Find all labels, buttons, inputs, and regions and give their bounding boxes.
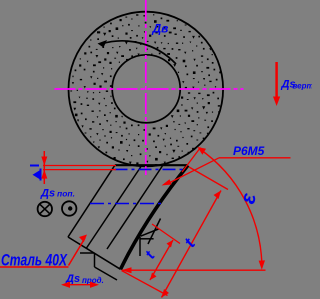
arc arrowhead bottom [259,260,265,269]
grinding wheel bore circle [112,55,180,123]
tool rest left: top surface [80,252,95,254]
tool internal edge i2 [107,165,163,249]
feed symbol circle-dot (out of page) [62,201,76,215]
tool rest right: top surface [140,238,154,240]
depth t: lower arrowhead [41,170,47,179]
R6M5 shelf line [219,157,291,159]
wheel centerline vertical (magenta) [145,0,147,175]
tool top edge (ground surface) [115,164,188,166]
R6M5 leader arrowhead [162,179,172,185]
face extension line red [182,148,201,173]
depth t: upper arrowhead [41,157,47,166]
label underline [0,266,69,268]
horizontal ray of angle epsilon [122,269,266,271]
svg-text:верт.: верт. [293,82,313,91]
tool rest right: vertical edge [139,237,141,256]
wheel rotation arrowhead [98,40,108,48]
wheel rotation arrow arc [101,41,176,64]
tool rest left: lower diagonal [95,267,118,280]
tool centerline 2 (blue dash-dot) [90,203,163,205]
tool ground face (thick line) [121,165,189,269]
grinding wheel outer circle [69,12,224,167]
wheel centerline horizontal (magenta) [55,88,244,90]
grinding wheel stipple texture [70,14,223,167]
leader Stal 40X into body [69,238,86,266]
arrowhead at tool tip [122,267,132,273]
svg-text:поп.: поп. [57,189,75,199]
L2 top arrowhead [214,191,222,200]
tool rest right: upper diagonal [141,229,159,236]
dimension line DL1 (plate length) [150,240,173,280]
tool rest left: front edge [94,253,96,267]
DL1 bottom arrowhead [150,273,157,281]
tool rest right: rear edge [148,219,161,245]
depth t: dimension line vertical [43,151,45,184]
tool bottom edge [68,237,121,269]
extension from corner E down-right [189,167,228,190]
extension line from face B2 [152,224,180,244]
L2 bottom arrowhead [162,289,170,298]
tool centerline 1 (blue dash-dot) [115,168,187,170]
R6M5 leader [168,158,219,184]
tip extension line [122,271,168,296]
vertical feed red arrow [275,62,278,100]
tool left edge [68,165,115,237]
depth t: extension line lower [43,169,116,171]
depth t: extension line upper [43,165,116,167]
dimension line L2 (tool height) [162,191,222,298]
svg-text:Р6М5: Р6М5 [233,144,265,158]
feed symbol circle-cross (into page) [38,202,52,216]
svg-text:Дв: Дв [152,22,169,36]
label t (depth of cut) [30,165,39,167]
longitudinal feed double arrow [63,284,97,286]
tool internal edge i1 [87,165,143,248]
DL1 top arrowhead [167,240,174,248]
angle epsilon arc [199,149,262,267]
svg-text:Дs: Дs [40,188,55,200]
arc arrowhead top [198,147,207,155]
